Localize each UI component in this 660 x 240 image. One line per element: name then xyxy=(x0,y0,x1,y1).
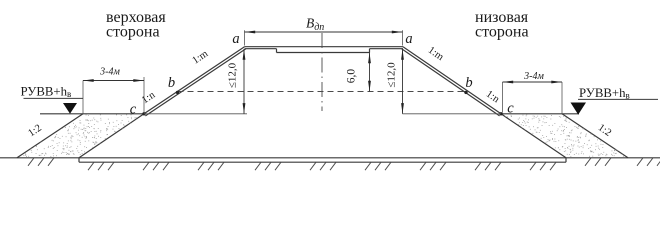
svg-text:3-4м: 3-4м xyxy=(523,71,544,82)
svg-text:сторона: сторона xyxy=(475,24,529,41)
svg-text:a: a xyxy=(232,31,239,47)
svg-text:6,0: 6,0 xyxy=(346,69,358,84)
svg-text:≤12,0: ≤12,0 xyxy=(386,62,398,88)
svg-text:≤12,0: ≤12,0 xyxy=(227,62,239,88)
svg-text:сторона: сторона xyxy=(106,24,160,41)
svg-text:a: a xyxy=(405,31,412,47)
svg-text:b: b xyxy=(168,75,175,91)
svg-text:c: c xyxy=(507,101,514,117)
svg-text:c: c xyxy=(130,101,137,117)
svg-text:b: b xyxy=(465,75,472,91)
svg-text:3-4м: 3-4м xyxy=(99,67,120,78)
svg-text:РУВВ+hв: РУВВ+hв xyxy=(579,86,630,101)
svg-text:РУВВ+hв: РУВВ+hв xyxy=(21,85,72,100)
